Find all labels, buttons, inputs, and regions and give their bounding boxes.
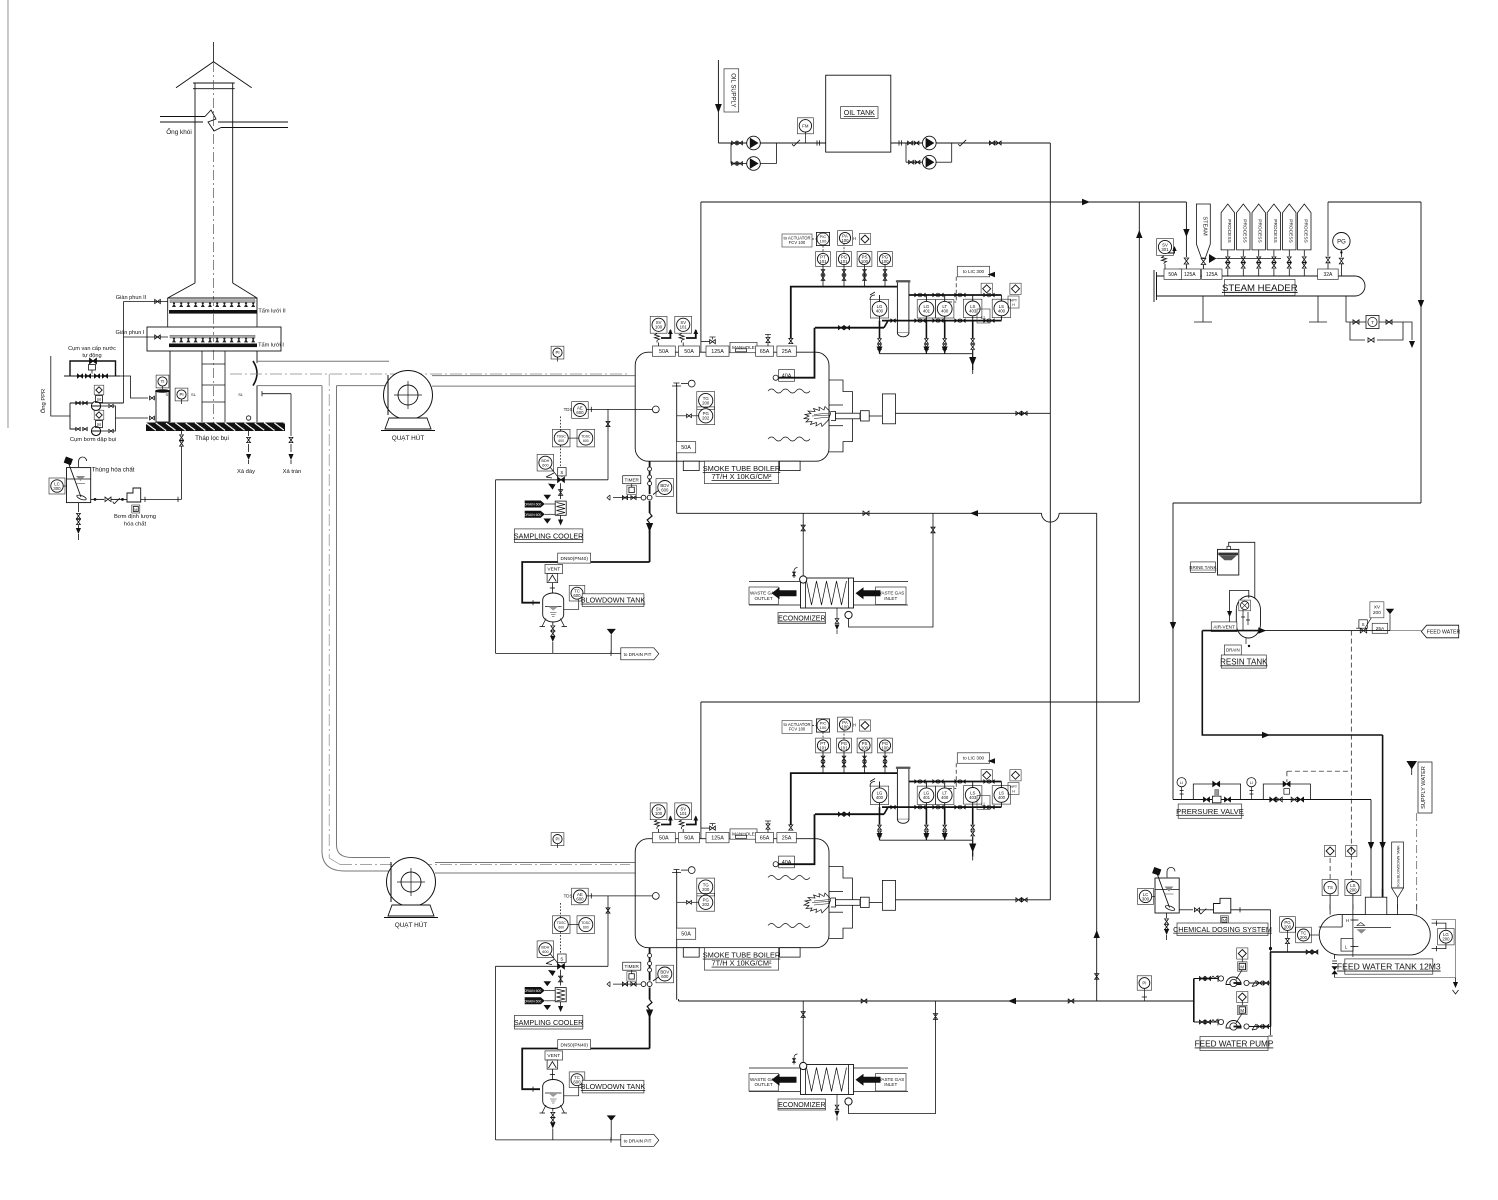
svg-text:QUẠT HÚT: QUẠT HÚT (395, 920, 428, 929)
svg-text:DRAIN 600: DRAIN 600 (524, 999, 541, 1003)
feed internal pipe B1 (676, 385, 678, 513)
blowdown handler BDH-600 B1 (537, 454, 554, 471)
svg-text:Xả đáy: Xả đáy (237, 469, 255, 475)
economizer2 inlet branch (802, 1001, 804, 1063)
TIMER box B1 (623, 476, 641, 484)
blowdown tank drain B1 (552, 622, 554, 625)
blowdown line boiler B2 (649, 948, 651, 981)
svg-text:FEED WATER PUMP: FEED WATER PUMP (1195, 1040, 1274, 1049)
label 50A feed B2 (676, 928, 695, 939)
32A takeoff valve (1327, 202, 1329, 256)
25A connection boiler B1 (789, 338, 793, 343)
pressure controller PIC-100 B1 (816, 232, 829, 245)
65A vent valve boiler B1 (766, 337, 770, 342)
svg-text:400: 400 (876, 309, 884, 314)
duct elbow to fan2 (322, 851, 345, 871)
svg-text:50A: 50A (1168, 272, 1178, 278)
steam line boiler2 vertical to header line (1138, 202, 1140, 702)
svg-text:202: 202 (702, 902, 710, 907)
instrument stems to pressure instruments B1 (822, 265, 824, 287)
svg-text:100: 100 (861, 745, 869, 750)
svg-text:SL: SL (166, 392, 172, 397)
svg-text:100: 100 (655, 811, 663, 816)
65A vent valve boiler B2 (766, 824, 770, 829)
gauge LI-2 (1247, 778, 1256, 787)
BRINE TANK (1218, 549, 1239, 575)
label ECONOMIZER B2 (778, 1099, 826, 1110)
svg-text:H: H (1012, 303, 1015, 307)
svg-text:FEED WATER TANK 12M3: FEED WATER TANK 12M3 (1337, 962, 1441, 972)
instrument TC-200 feed tank (1296, 927, 1312, 943)
sample line to cooler B1 (496, 479, 609, 481)
label CHEMICAL DOSING SYSTEM (1177, 923, 1268, 936)
SV-100 vent pipe B2 (661, 817, 670, 825)
svg-text:Xả tràn: Xả tràn (283, 469, 302, 475)
svg-text:Cụm van cấp nước: Cụm van cấp nước (68, 346, 116, 352)
economizer drain B2 (836, 1095, 838, 1105)
label DN50 PN40 B1 (558, 553, 591, 563)
blowdown valve cross B2 (647, 982, 652, 987)
svg-text:200: 200 (1373, 610, 1381, 616)
interlock diamond LS400 B2 (1010, 770, 1021, 781)
seal pot tank (156, 391, 169, 422)
timer drain valves B2 (613, 983, 641, 985)
fuel line boiler B2 (896, 899, 1051, 901)
svg-text:300: 300 (53, 486, 61, 491)
feed pump P1 motor (1238, 962, 1247, 971)
wire chem dosing line (91, 498, 104, 500)
label WASTE GAS INLET B2 (876, 1074, 907, 1092)
svg-text:M: M (1223, 919, 1226, 923)
svg-text:600: 600 (542, 950, 548, 954)
svg-text:200: 200 (1284, 924, 1292, 929)
boiler B1 burner gun (831, 412, 836, 421)
sample coil cooler B2 (555, 988, 566, 1002)
gauge glass LG-401 B1 (917, 300, 935, 318)
svg-text:M: M (97, 397, 101, 402)
svg-text:FM: FM (802, 123, 809, 128)
svg-text:LL: LL (981, 315, 986, 320)
label to DRAIN PIT B2 (621, 1134, 659, 1146)
label DN50 PN40 B2 (558, 1040, 591, 1050)
svg-text:50A: 50A (681, 932, 691, 938)
chimney stack Ong khoi (194, 89, 196, 283)
label PRERSURE VALVE (1178, 804, 1242, 818)
fan 1 QUAT HUT (384, 371, 433, 420)
thermometer TG-200 B1 (697, 392, 715, 410)
feed boiler1 valve (863, 511, 869, 516)
blowdown to tank pipe B2 (522, 1049, 649, 1090)
chemical dosing tank 2 (1155, 878, 1179, 913)
label 50A SV100 B2 (652, 833, 675, 843)
oil pump 2B bypass (905, 143, 907, 162)
svg-text:101: 101 (819, 745, 827, 750)
MANHOLE boiler B1 (730, 342, 757, 352)
feed pump P1 volute (1226, 977, 1241, 984)
interlock diamond LS (1346, 845, 1357, 856)
boiler B1 water level waves (768, 389, 810, 393)
svg-text:CHEMICAL DOSING SYSTEM: CHEMICAL DOSING SYSTEM (1173, 925, 1272, 934)
svg-text:VENT: VENT (547, 567, 560, 573)
svg-text:BLOWDOWN TANK: BLOWDOWN TANK (581, 596, 646, 605)
blowdown tank vessel B2 (543, 1080, 564, 1109)
feed pump suction header (1193, 979, 1195, 1023)
gauge glass LG-401 B2 (917, 786, 935, 804)
wire spray II feed riser (123, 302, 125, 338)
auto water valve assembly (70, 361, 116, 376)
svg-text:DRAIN 600: DRAIN 600 (524, 513, 541, 517)
instrument PI feed header (1137, 976, 1151, 990)
boiler B2 water level waves (768, 876, 810, 880)
label ECONOMIZER B1 (778, 613, 826, 624)
dosing valve 1 (105, 497, 111, 502)
feed pump P2 suction valves (1194, 1021, 1222, 1023)
resin tank drain (1224, 645, 1241, 655)
water column B2 (897, 767, 909, 819)
trap outlet arrow (1403, 322, 1412, 340)
svg-text:101: 101 (840, 259, 848, 264)
tower spray I outer box (147, 327, 281, 351)
svg-text:125A: 125A (711, 836, 724, 842)
manifold valve ticks B2 (915, 780, 919, 783)
svg-text:WASTE GAS: WASTE GAS (877, 591, 904, 596)
label 32A (1318, 269, 1339, 279)
svg-text:Tấm lưới I: Tấm lưới I (258, 343, 284, 349)
svg-text:S: S (560, 956, 563, 961)
svg-text:ECONOMIZER: ECONOMIZER (778, 1102, 825, 1109)
svg-text:403: 403 (969, 795, 977, 800)
label 125A steam B2 (706, 833, 729, 843)
feed pump P1 discharge (1244, 980, 1249, 985)
svg-text:T: T (1371, 320, 1374, 325)
main steam valve boiler B1 (700, 342, 702, 353)
column top manifold B1 (909, 294, 1002, 296)
svg-text:50A: 50A (681, 445, 691, 451)
svg-text:TIMER: TIMER (625, 964, 640, 969)
svg-text:Cụm bơm dập bụi: Cụm bơm dập bụi (70, 437, 116, 443)
chemical tank water mark (76, 476, 85, 481)
svg-text:Ống PPR: Ống PPR (40, 389, 47, 414)
economizer B2 (749, 1067, 801, 1069)
pressure alarm PA-100 B1 (838, 231, 853, 246)
header flow arrow (1209, 254, 1216, 263)
feed pump P1 suction valves (1194, 978, 1222, 980)
blowdown valve BDV-600 B2 (656, 965, 674, 983)
svg-text:401: 401 (923, 795, 931, 800)
safety valve SV-100 boiler B2 (650, 803, 667, 820)
dosing pump 2 (1210, 898, 1231, 913)
duct tower to fan1 top line (257, 360, 389, 362)
chemical tank hook vent (79, 457, 87, 467)
svg-text:PI: PI (1142, 981, 1146, 986)
sample 3-way valve B2 (558, 964, 565, 969)
sample bottles B1 (525, 501, 545, 508)
chemical tank agitator (69, 463, 82, 497)
process outlet 6 (1298, 204, 1311, 250)
svg-text:300: 300 (1142, 896, 1150, 901)
LL box B1 (977, 309, 990, 323)
label RESIN TANK (1221, 655, 1266, 668)
svg-text:PROCESS: PROCESS (1272, 219, 1278, 242)
instrument PI duct B1 (551, 346, 564, 359)
svg-text:SAMPLING COOLER: SAMPLING COOLER (514, 1018, 584, 1027)
oil supply line vertical (717, 60, 719, 143)
safety valve SV-101 boiler B2 (675, 803, 692, 820)
valve XV-200 (1360, 628, 1366, 633)
boiler B1 burner block (882, 394, 895, 424)
svg-text:PROCESS: PROCESS (1287, 219, 1293, 242)
feed tank internals H L (1341, 915, 1343, 927)
label 65A B1 (756, 346, 774, 356)
svg-text:hóa chất: hóa chất (124, 522, 147, 528)
temperature TC-600 blowdown tank B1 (569, 585, 585, 601)
svg-text:65A: 65A (760, 836, 770, 842)
economizer1 outlet branch (849, 513, 934, 627)
feed riser boiler1 (1096, 513, 1098, 1001)
pressure controller PIC-100 B2 (816, 719, 829, 732)
column drain legs B1 (879, 321, 881, 338)
interlock diamond TS (1325, 845, 1336, 856)
blowdown tank vessel B1 (543, 593, 564, 622)
economizer2 outlet branch (849, 1001, 936, 1114)
fan 2 QUAT HUT (387, 858, 436, 907)
blowdown to tank pipe B1 (522, 562, 649, 603)
svg-text:301: 301 (1161, 247, 1169, 252)
resin tank sight glass (1239, 600, 1251, 611)
sample line from boiler B1 (586, 408, 652, 410)
level switch LS-400 B1 (992, 299, 1010, 317)
boiler B1 burner flame (804, 407, 831, 427)
svg-text:DN50(PN40): DN50(PN40) (560, 1042, 588, 1048)
main steam valve boiler B2 (700, 828, 702, 839)
page border line (7, 0, 9, 428)
label FEED WATER TANK 12M3 (1345, 959, 1433, 974)
steam line boiler2 horizontal (701, 701, 1139, 703)
chem tank 2 water mark (1165, 887, 1174, 892)
svg-text:SUPPLY WATER: SUPPLY WATER (1421, 766, 1427, 809)
svg-text:200: 200 (702, 400, 710, 405)
svg-text:TDSC: TDSC (581, 921, 591, 925)
waste gas inlet arrow B2 (856, 1074, 881, 1086)
sample coil cooler B1 (555, 501, 566, 515)
label from BLOWDOWN TANK (1392, 842, 1404, 888)
steam header support 1 (1202, 296, 1204, 322)
column bottom manifold B2 (882, 806, 1001, 808)
oil pump 1B bypass (730, 143, 732, 164)
sample dotted line B1 (560, 417, 562, 473)
tower internal ladder (201, 351, 203, 422)
svg-text:LL: LL (981, 802, 986, 807)
label to LIC 300 B2 (957, 753, 989, 764)
boiler B2 shell SMOKE TUBE BOILER (635, 839, 829, 948)
boiler B2 burner throat (829, 867, 852, 939)
cooler inlet valve B2 (560, 970, 562, 986)
instrument LC-300 chem tank (49, 478, 65, 494)
instrument LS-200 feed tank (1345, 880, 1361, 896)
gauge LI-1 (1177, 778, 1186, 787)
svg-text:100: 100 (655, 325, 663, 330)
wire spray I feed riser (123, 337, 125, 403)
TDS cooler TDSC-600 B1 (552, 429, 570, 447)
svg-text:TIMER: TIMER (625, 478, 640, 483)
svg-text:TDSC: TDSC (557, 921, 567, 925)
25A connection boiler B2 (789, 825, 793, 830)
feed pump P2 discharge (1244, 1024, 1249, 1029)
svg-text:100: 100 (861, 259, 869, 264)
svg-text:100: 100 (841, 724, 849, 729)
chemical tank Thung hoa chat (67, 468, 91, 503)
process outlet 4 (1267, 204, 1280, 250)
svg-text:BDH: BDH (541, 946, 549, 950)
SV-100 vent pipe B1 (661, 330, 670, 338)
thermometer TG-200 B2 (697, 878, 715, 896)
svg-text:600: 600 (558, 439, 564, 443)
level switch LS-403 B2 (964, 786, 982, 804)
blowdown tank legs B1 (542, 619, 546, 627)
PRV loop 2 (1263, 784, 1310, 800)
tower drain to chemical line (181, 431, 183, 434)
instrument PI tower (175, 388, 188, 401)
pressure gauge PG header (1333, 233, 1350, 250)
svg-text:LI: LI (1180, 781, 1183, 785)
economizer outlet circle B2 (845, 1098, 852, 1105)
HPT H box B1 (1008, 296, 1019, 308)
STEAM tag (1196, 204, 1210, 258)
cooler inlet valve B1 (560, 483, 562, 499)
gauge glass LG-400 B1 (870, 300, 888, 318)
label OIL TANK (841, 107, 878, 119)
dashed interlock XV200 to LS200 (1350, 631, 1352, 880)
air vent loop resin tank (1230, 590, 1249, 625)
svg-text:H: H (853, 723, 856, 728)
supply water dashdot line (1416, 813, 1418, 915)
blowdown tank vent B2 (545, 1051, 563, 1060)
duct flex connector arc (253, 361, 257, 386)
level transmitter LT-400 B2 (936, 786, 954, 804)
svg-text:H: H (1012, 789, 1015, 793)
economizer drain B1 (836, 608, 838, 618)
boiler shell tap to column B2 (815, 813, 884, 815)
safety valve SV-100 boiler B1 (650, 316, 667, 333)
svg-text:Giàn phun I: Giàn phun I (116, 330, 145, 336)
drain funnel B2 (607, 1115, 616, 1121)
label BLOWDOWN TANK B2 (582, 1080, 644, 1093)
svg-text:TDSC: TDSC (581, 435, 591, 439)
HPT H box B2 (1008, 783, 1019, 795)
svg-text:to LIC 300: to LIC 300 (963, 269, 985, 274)
svg-text:125A: 125A (1184, 272, 1196, 278)
label BRINE TANK (1191, 562, 1216, 573)
svg-text:RESIN TANK: RESIN TANK (1220, 657, 1268, 666)
feed riser boiler1 valve (1095, 974, 1099, 980)
boiler shell tap to column B1 (815, 327, 884, 329)
sample 3-way valve B1 (558, 477, 565, 482)
spray header II Gian phun II (124, 301, 169, 303)
label to LIC 300 B1 (957, 266, 989, 277)
PRV loop 2 valves (1270, 797, 1276, 802)
LIC dashed signal B2 (955, 763, 957, 788)
oil check valve 2 (958, 140, 966, 146)
pressure transmitter PT-101 B2 (816, 738, 831, 753)
pressure gauge PG-202 B2 (697, 893, 715, 911)
column drain legs B2 (879, 807, 881, 824)
svg-text:600: 600 (558, 926, 564, 930)
feed header valve 1 (861, 999, 867, 1003)
svg-text:DN50(PN40): DN50(PN40) (560, 556, 588, 562)
label OIL SUPPLY (724, 69, 739, 112)
svg-text:H: H (853, 236, 856, 241)
feed pump P2 volute (1226, 1021, 1241, 1028)
svg-text:TDS: TDS (564, 407, 573, 412)
sample line to cooler B2 (496, 965, 609, 967)
svg-text:101: 101 (680, 811, 688, 816)
svg-text:M: M (1240, 964, 1244, 969)
pressure gauge PG-202 B1 (697, 407, 715, 425)
label STEAM HEADER (1225, 279, 1296, 295)
label SAMPLING COOLER B1 (514, 529, 582, 543)
sample dotted line B2 (560, 903, 562, 959)
steam trap assembly (1345, 296, 1347, 322)
economizer inlet circle B2 (800, 1062, 807, 1069)
label SMOKE TUBE BOILER B1 (704, 461, 778, 483)
oil pump 2A (923, 136, 937, 150)
blowdown drop B2 (649, 988, 651, 1000)
blowdown tank vent B1 (545, 564, 563, 573)
duct centerline dashdot to fan2 (329, 858, 340, 865)
feed internal pipe B2 (676, 872, 678, 1000)
svg-text:400: 400 (876, 795, 884, 800)
svg-text:200: 200 (1442, 937, 1450, 942)
process outlet 2 (1237, 204, 1250, 250)
label to ACTUATOR FCV 100 B1 (782, 234, 812, 247)
svg-text:QUẠT HÚT: QUẠT HÚT (392, 433, 425, 442)
svg-text:PI: PI (179, 392, 183, 397)
svg-text:Thùng hóa chất: Thùng hóa chất (91, 467, 134, 474)
header distribution line (1216, 258, 1281, 260)
interlock diamond LS403 B2 (981, 770, 992, 781)
wire pump discharge to seal tank (114, 406, 149, 418)
svg-text:100: 100 (820, 725, 827, 730)
OIL TANK (826, 75, 891, 152)
SV-101 vent pipe B1 (686, 330, 696, 338)
LL box B2 (977, 796, 990, 810)
svg-text:S: S (560, 470, 563, 475)
drain line to pit B1 (495, 480, 497, 654)
instrument TI seal pot (156, 375, 169, 388)
feed tank suction line (1271, 951, 1319, 953)
feed water header to boiler1 (677, 512, 1042, 514)
pressure alarm PA-100 B2 (838, 717, 853, 732)
duct fan2 to boiler2 (435, 862, 637, 864)
economizer vent hook B2 (794, 1054, 798, 1065)
tower lower shell (169, 351, 171, 422)
duct centerline dashdot horizontal (230, 373, 630, 375)
feed pump discharge header (1270, 952, 1272, 1027)
svg-text:Tấm lưới II: Tấm lưới II (258, 309, 286, 315)
svg-text:BRINE TANK: BRINE TANK (1189, 565, 1217, 570)
chem tank 2 drain (1166, 913, 1168, 918)
svg-text:100: 100 (881, 259, 889, 264)
timer drain valves B1 (613, 497, 641, 499)
svg-text:50A: 50A (684, 349, 694, 355)
label to ACTUATOR FCV 100 B2 (782, 721, 812, 734)
svg-text:SAMPLING COOLER: SAMPLING COOLER (514, 531, 584, 540)
svg-text:TS: TS (1327, 885, 1333, 890)
boiler B2 burner flame (804, 893, 831, 913)
svg-text:200: 200 (702, 887, 710, 892)
steam line boiler1 horizontal (701, 201, 1187, 203)
wire supply water line to seal tank (120, 376, 148, 398)
